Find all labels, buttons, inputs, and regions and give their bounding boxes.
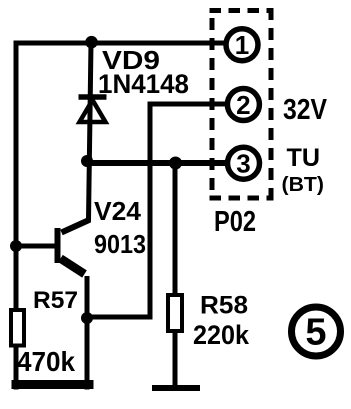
- svg-text:(BT): (BT): [282, 174, 325, 196]
- svg-text:V24: V24: [94, 196, 142, 226]
- svg-text:220k: 220k: [193, 320, 250, 350]
- svg-text:P02: P02: [214, 206, 256, 238]
- svg-text:R58: R58: [200, 292, 248, 320]
- svg-text:9013: 9013: [94, 229, 146, 259]
- svg-text:2: 2: [236, 90, 250, 120]
- svg-text:3: 3: [236, 149, 250, 179]
- svg-text:32V: 32V: [283, 94, 328, 126]
- svg-text:1: 1: [235, 30, 249, 60]
- svg-text:TU: TU: [287, 144, 321, 172]
- svg-text:470k: 470k: [17, 346, 75, 377]
- svg-text:1N4148: 1N4148: [98, 69, 189, 99]
- svg-text:5: 5: [305, 312, 326, 354]
- svg-text:R57: R57: [33, 287, 78, 314]
